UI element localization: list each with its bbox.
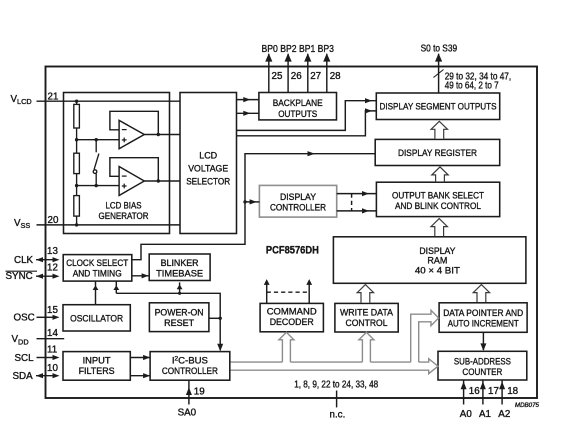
svg-text:10: 10 — [47, 363, 58, 374]
overline of SYNC label — [6, 270, 38, 272]
arrowhead OSC in — [53, 315, 60, 320]
svg-text:S0 to S39: S0 to S39 — [421, 44, 458, 55]
junction dot tap1 chain — [75, 138, 78, 141]
svg-text:15: 15 — [47, 305, 58, 316]
block arrow write data control to display RAM — [357, 285, 373, 303]
block arrow display register to segment outputs — [431, 121, 447, 138]
switch S1 contact circle — [93, 170, 97, 174]
arrowhead A2 — [499, 382, 505, 390]
wire clock select to blinker — [132, 275, 149, 277]
svg-text:11: 11 — [47, 344, 57, 355]
wire oscillator to clock select — [95, 282, 97, 305]
svg-text:18: 18 — [507, 386, 518, 397]
wire R1 to R2 — [76, 128, 78, 153]
arrowhead decoder up left — [264, 279, 270, 285]
junction dot switch bottom — [95, 184, 98, 187]
arrowhead SDA into filters — [53, 373, 60, 378]
svg-text:INPUT: INPUT — [83, 355, 111, 366]
switch S1 bottom stub — [95, 174, 97, 186]
arrowhead A1 — [480, 382, 486, 390]
junction dot VLCD chain — [75, 100, 78, 103]
svg-text:DISPLAY REGISTER: DISPLAY REGISTER — [398, 148, 477, 159]
svg-text:WRITE DATA: WRITE DATA — [340, 308, 394, 319]
arrowhead A0 — [461, 382, 467, 390]
arrowhead BP3 — [323, 53, 330, 61]
block SUB-ADDRESS COUNTER box — [438, 351, 527, 380]
pin BP2 wire — [287, 54, 289, 93]
arrowhead SCL into I2C — [143, 355, 150, 360]
svg-text:AND TIMING: AND TIMING — [73, 269, 122, 280]
block INPUT FILTERS box — [63, 352, 130, 381]
arrowhead SYNC out — [36, 274, 43, 279]
svg-text:16: 16 — [469, 386, 480, 397]
block DISPLAY REGISTER box — [375, 139, 500, 165]
svg-text:MDB075: MDB075 — [515, 402, 540, 409]
wire SDA filters to I2C — [130, 375, 150, 377]
svg-text:CONTROL: CONTROL — [346, 318, 389, 329]
svg-text:CONTROLLER: CONTROLLER — [162, 366, 218, 377]
junction dot register/controller wire — [243, 200, 246, 203]
svg-text:TIMEBASE: TIMEBASE — [156, 268, 203, 279]
arrowhead SDA out — [36, 373, 43, 378]
svg-text:POWER-ON: POWER-ON — [155, 308, 204, 319]
svg-text:COUNTER: COUNTER — [462, 367, 502, 378]
svg-text:25: 25 — [272, 71, 283, 82]
op-amp U1 feedback wire — [110, 111, 158, 134]
svg-text:SYNC: SYNC — [6, 271, 33, 282]
op-amp U1 triangle — [119, 120, 144, 148]
svg-text:LCD BIAS: LCD BIAS — [106, 200, 142, 211]
svg-text:49 to 64, 2 to 7: 49 to 64, 2 to 7 — [445, 80, 499, 91]
wire command decoder up arrow left — [266, 281, 268, 304]
junction dot U1 output — [157, 133, 160, 136]
op-amp U2 feedback wire — [110, 158, 158, 181]
arrowhead decoder up right — [306, 279, 312, 285]
pin BP3 wire — [326, 54, 328, 93]
arrowhead SCL into filters — [53, 355, 60, 360]
op-amp U1 plus sign — [122, 139, 127, 141]
slash multi-pin tick on S wire — [434, 70, 444, 78]
junction dot POR rail blinker branch — [178, 292, 181, 295]
wire clock select to display register and controller — [132, 154, 375, 260]
svg-text:OUTPUTS: OUTPUTS — [278, 109, 317, 120]
svg-text:40 × 4 BIT: 40 × 4 BIT — [415, 266, 460, 277]
svg-text:26: 26 — [291, 71, 302, 82]
svg-text:A2: A2 — [498, 409, 510, 420]
junction dot U2 output — [157, 179, 160, 182]
wire R3 to VSS rail — [76, 216, 78, 225]
chip outline PCF8576DH — [46, 67, 538, 399]
pin A1 wire — [482, 380, 484, 405]
arrowhead POR into I2C controller — [217, 344, 223, 352]
op-amp U2 plus sign — [122, 185, 127, 187]
arrowhead controller to bank select upper — [362, 191, 369, 196]
pin SA0 wire — [188, 380, 190, 405]
svg-text:SDA: SDA — [13, 371, 34, 382]
arrowhead into display register — [308, 151, 316, 156]
block COMMAND DECODER box — [260, 303, 323, 331]
arrowhead BP0 — [265, 53, 272, 61]
svg-text:n.c.: n.c. — [330, 410, 346, 421]
pin SCL wire — [37, 357, 53, 359]
junction dot switch top — [95, 138, 98, 141]
op-amp U2 triangle — [119, 167, 144, 196]
block POWER-ON RESET box — [149, 303, 209, 332]
svg-text:BACKPLANE: BACKPLANE — [273, 98, 323, 109]
arrowhead oscillator into clock select — [93, 285, 99, 290]
op-amp U1 minus sign — [122, 129, 127, 131]
svg-text:14: 14 — [47, 328, 58, 339]
arrowhead POR into blinker — [177, 284, 183, 289]
svg-text:RESET: RESET — [164, 318, 194, 329]
svg-text:DATA POINTER AND: DATA POINTER AND — [443, 308, 523, 319]
wire POR horizontal rail — [116, 293, 220, 350]
block OUTPUT BANK SELECT AND BLINK CONTROL box — [376, 182, 499, 216]
svg-text:17: 17 — [488, 386, 499, 397]
svg-text:CLOCK SELECT: CLOCK SELECT — [66, 258, 128, 269]
arrowhead controller to bank select lower — [362, 208, 369, 213]
resistor R1 — [74, 104, 80, 128]
arrowhead BP2 — [285, 53, 292, 61]
op-amp U1 output wire to selector — [144, 134, 180, 136]
svg-text:BLINKER: BLINKER — [161, 258, 199, 269]
gray branch wire bus to data pointer — [411, 310, 439, 362]
svg-text:SELECTOR: SELECTOR — [186, 177, 230, 188]
svg-text:VOLTAGE: VOLTAGE — [188, 164, 228, 175]
arrowhead POR into clock select — [113, 285, 119, 290]
wire tap2 to op-amp2 non-inverting input — [77, 185, 120, 187]
arrowhead BP1 — [304, 53, 311, 61]
arrowhead into display controller — [250, 199, 257, 204]
wire POR rail to blinker timebase — [179, 282, 181, 293]
svg-text:FILTERS: FILTERS — [79, 366, 115, 377]
arrowhead CLK in — [53, 257, 60, 262]
wire POR rail to clock select — [115, 282, 117, 294]
dashed wire between controller outputs — [351, 194, 353, 211]
svg-text:12: 12 — [47, 262, 58, 273]
wire selector to backplane upper — [237, 99, 259, 101]
arrowhead SYNC in — [53, 274, 60, 279]
block arrow display RAM to bank select — [431, 219, 447, 236]
pin S0-S39 wire — [438, 54, 440, 93]
svg-text:13: 13 — [47, 246, 58, 257]
block BACKPLANE OUTPUTS box — [259, 93, 337, 120]
svg-text:1, 8, 9, 22 to 24, 33, 48: 1, 8, 9, 22 to 24, 33, 48 — [294, 380, 378, 391]
svg-text:I2C-BUS: I2C-BUS — [172, 355, 208, 366]
pin A2 wire — [501, 380, 503, 405]
svg-text:CONTROLLER: CONTROLLER — [270, 203, 326, 214]
svg-text:A0: A0 — [460, 409, 473, 420]
pin SYNC wire — [36, 275, 53, 277]
pin CLK wire — [36, 259, 53, 261]
svg-text:OSC: OSC — [14, 313, 35, 324]
svg-text:VLCD: VLCD — [11, 94, 32, 106]
svg-text:DISPLAY SEGMENT OUTPUTS: DISPLAY SEGMENT OUTPUTS — [380, 102, 497, 113]
svg-text:27: 27 — [310, 71, 321, 82]
switch S1 top stub — [95, 140, 97, 153]
gray bus wire I2C controller to sub-address counter — [231, 359, 439, 374]
pin BP0 wire — [268, 54, 270, 93]
svg-text:COMMAND: COMMAND — [267, 307, 317, 318]
wire selector to backplane lower — [237, 112, 259, 114]
gray branch wire bus to write data control — [359, 332, 374, 362]
pin A0 wire — [463, 380, 465, 405]
pin VSS wire — [37, 224, 181, 226]
svg-text:19: 19 — [194, 386, 205, 397]
arrowhead SDA into I2C — [143, 373, 150, 378]
svg-text:GENERATOR: GENERATOR — [99, 211, 149, 222]
svg-text:PCF8576DH: PCF8576DH — [266, 244, 319, 256]
junction dot VSS chain — [75, 223, 78, 226]
block DATA POINTER AND AUTO INCREMENT box — [439, 303, 527, 333]
wire tap1 to op-amp1 non-inverting input — [77, 139, 120, 141]
svg-text:SUB-ADDRESS: SUB-ADDRESS — [454, 356, 511, 367]
svg-text:SCL: SCL — [15, 353, 35, 364]
pin VLCD wire — [37, 100, 181, 102]
pin OSC wire — [37, 316, 53, 318]
pin SDA wire — [36, 375, 53, 377]
dashed wire between decoder up arrows — [267, 291, 310, 293]
svg-text:21: 21 — [48, 91, 59, 102]
svg-text:DISPLAY: DISPLAY — [280, 192, 317, 203]
resistor R3 — [74, 196, 80, 217]
block arrow data pointer to display RAM — [473, 285, 489, 302]
block I2C-BUS CONTROLLER box — [150, 352, 230, 381]
svg-text:OSCILLATOR: OSCILLATOR — [70, 313, 123, 324]
gray branch wire bus to command decoder — [279, 332, 294, 362]
arrowhead CLK out — [36, 257, 43, 262]
wire data pointer to sub-address counter — [482, 332, 484, 350]
arrowhead into backplane lower — [243, 111, 250, 116]
svg-text:AUTO INCREMENT: AUTO INCREMENT — [448, 319, 519, 330]
block CLOCK SELECT AND TIMING box — [63, 255, 132, 282]
block arrow bank select to display register — [432, 167, 448, 182]
arrowhead into sub-address counter — [480, 343, 486, 351]
block DISPLAY RAM box — [333, 237, 526, 283]
arrowhead SA0 — [186, 387, 192, 395]
svg-text:VSS: VSS — [14, 218, 30, 230]
wire branch into display controller — [245, 201, 259, 203]
arrowhead into segment outputs lower — [365, 108, 372, 113]
junction dot POR stub — [219, 317, 222, 320]
block BLINKER TIMEBASE box — [149, 254, 210, 281]
wire command decoder up arrow right — [308, 281, 310, 304]
switch S1 blade — [94, 154, 99, 170]
svg-text:20: 20 — [48, 215, 59, 226]
svg-text:A1: A1 — [479, 409, 491, 420]
wire controller to bank select upper — [337, 193, 377, 195]
wire selector to segment outputs upper — [237, 101, 377, 131]
wire resistor chain top segment — [76, 101, 78, 104]
block DISPLAY CONTROLLER box (gray) — [259, 185, 336, 217]
svg-text:LCD: LCD — [199, 151, 217, 162]
svg-text:28: 28 — [330, 71, 341, 82]
wire selector to segment outputs lower — [237, 111, 377, 136]
op-amp U2 minus sign — [122, 175, 127, 177]
svg-text:BP0 BP2 BP1 BP3: BP0 BP2 BP1 BP3 — [262, 44, 335, 55]
pin VDD wire — [37, 338, 65, 340]
junction dot tap2 chain — [75, 184, 78, 187]
wire controller to bank select lower — [337, 210, 377, 212]
resistor R2 — [74, 153, 80, 173]
arrowhead into backplane upper — [243, 97, 250, 102]
wire SCL filters to I2C — [130, 357, 150, 359]
wire POR output stub — [209, 317, 220, 319]
block DISPLAY SEGMENT OUTPUTS box — [376, 93, 499, 120]
arrowhead S0-S39 — [435, 53, 442, 61]
svg-text:CLK: CLK — [14, 255, 34, 266]
svg-text:VDD: VDD — [12, 334, 29, 346]
block WRITE DATA CONTROL box — [335, 303, 398, 332]
block OSCILLATOR box — [63, 305, 130, 331]
block LCD VOLTAGE SELECTOR box — [180, 93, 237, 234]
pin BP1 wire — [307, 54, 309, 93]
arrowhead into segment outputs upper — [365, 98, 372, 103]
svg-text:AND BLINK CONTROL: AND BLINK CONTROL — [395, 201, 482, 212]
pin n.c. tick wire — [336, 391, 338, 408]
wire R2 to R3 — [76, 174, 78, 196]
block LCD BIAS GENERATOR box — [64, 93, 170, 234]
svg-text:SA0: SA0 — [178, 408, 197, 419]
arrowhead clock select into blinker — [142, 273, 149, 278]
svg-text:OUTPUT BANK SELECT: OUTPUT BANK SELECT — [392, 191, 484, 202]
svg-text:DECODER: DECODER — [270, 317, 314, 328]
op-amp U2 output wire to selector — [144, 180, 180, 182]
